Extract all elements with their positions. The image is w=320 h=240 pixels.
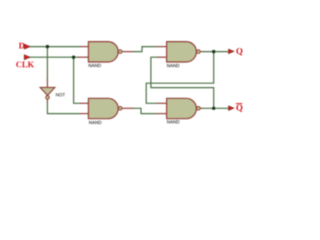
- pin stub: U3 input B: [80, 113, 88, 115]
- wire: U1 output to U2 input A: [134, 47, 158, 52]
- pin stub: U1 output: [122, 51, 134, 53]
- label NAND U1: [89, 64, 101, 67]
- pin stub: U4 input B: [157, 113, 167, 115]
- pin stub: U4 input A: [157, 102, 167, 104]
- junction node Q: [212, 50, 215, 53]
- output terminal arrow Qbar: [229, 106, 234, 110]
- wire: Qbar feedback from node QB up and left to U2 input B: [151, 57, 214, 108]
- label NAND U3: [89, 121, 101, 124]
- pin stub: U3 input A: [80, 102, 88, 104]
- nand gate U4 body: [167, 98, 197, 118]
- label Qbar: [236, 104, 242, 111]
- pin stub: U1 input B: [78, 56, 88, 58]
- wire: U4 output to Qbar terminal: [203, 107, 229, 109]
- wire: CLK input horizontal: [30, 56, 79, 58]
- pin stub: U4 output: [200, 107, 203, 109]
- wire: NOT output down and right to U3 input B: [47, 102, 80, 114]
- junction node on CLK wire: [72, 56, 75, 59]
- nand gate U2 body: [167, 42, 197, 62]
- nand gate U3 bubble: [118, 107, 122, 111]
- wire: D input horizontal: [30, 46, 81, 48]
- wire: Q feedback from node Q down and left to U4 input A: [146, 52, 214, 104]
- label NAND U4: [167, 120, 179, 123]
- label D: [19, 43, 25, 49]
- junction node Qbar: [212, 107, 215, 110]
- input terminal arrow D: [24, 44, 30, 49]
- pin stub: U3 output: [122, 107, 134, 109]
- nand gate U2 bubble: [197, 50, 201, 54]
- input terminal arrow CLK: [24, 55, 30, 60]
- nand gate U4 bubble: [197, 107, 201, 111]
- label NOT U5: [56, 93, 65, 96]
- pin stub: U2 input B: [157, 56, 167, 58]
- wire: U2 output to Q terminal: [203, 51, 229, 53]
- pin stub: NOT gate input: [46, 79, 48, 87]
- overline of Qbar: [236, 103, 242, 105]
- pin stub: U1 input A: [80, 46, 88, 48]
- output terminal arrow Q: [229, 49, 234, 53]
- pin stub: NOT gate output: [46, 99, 48, 102]
- junction node on D wire: [46, 45, 49, 48]
- pin stub: U2 input A: [157, 46, 167, 48]
- wire: CLK branch down to U3 input A: [74, 57, 81, 103]
- not gate U5 body (pointing down): [40, 87, 55, 95]
- not gate U5 bubble: [46, 96, 50, 100]
- nand gate U3 body: [88, 98, 118, 118]
- wire: D branch down to NOT input: [46, 47, 48, 80]
- nand gate U1 bubble: [118, 50, 122, 54]
- pin stub: U2 output: [200, 51, 203, 53]
- label Q: [236, 48, 242, 55]
- wire: U3 output to U4 input B: [133, 108, 157, 113]
- label CLK: [16, 62, 34, 68]
- label NAND U2: [167, 64, 179, 67]
- nand gate U1 body: [88, 42, 118, 62]
